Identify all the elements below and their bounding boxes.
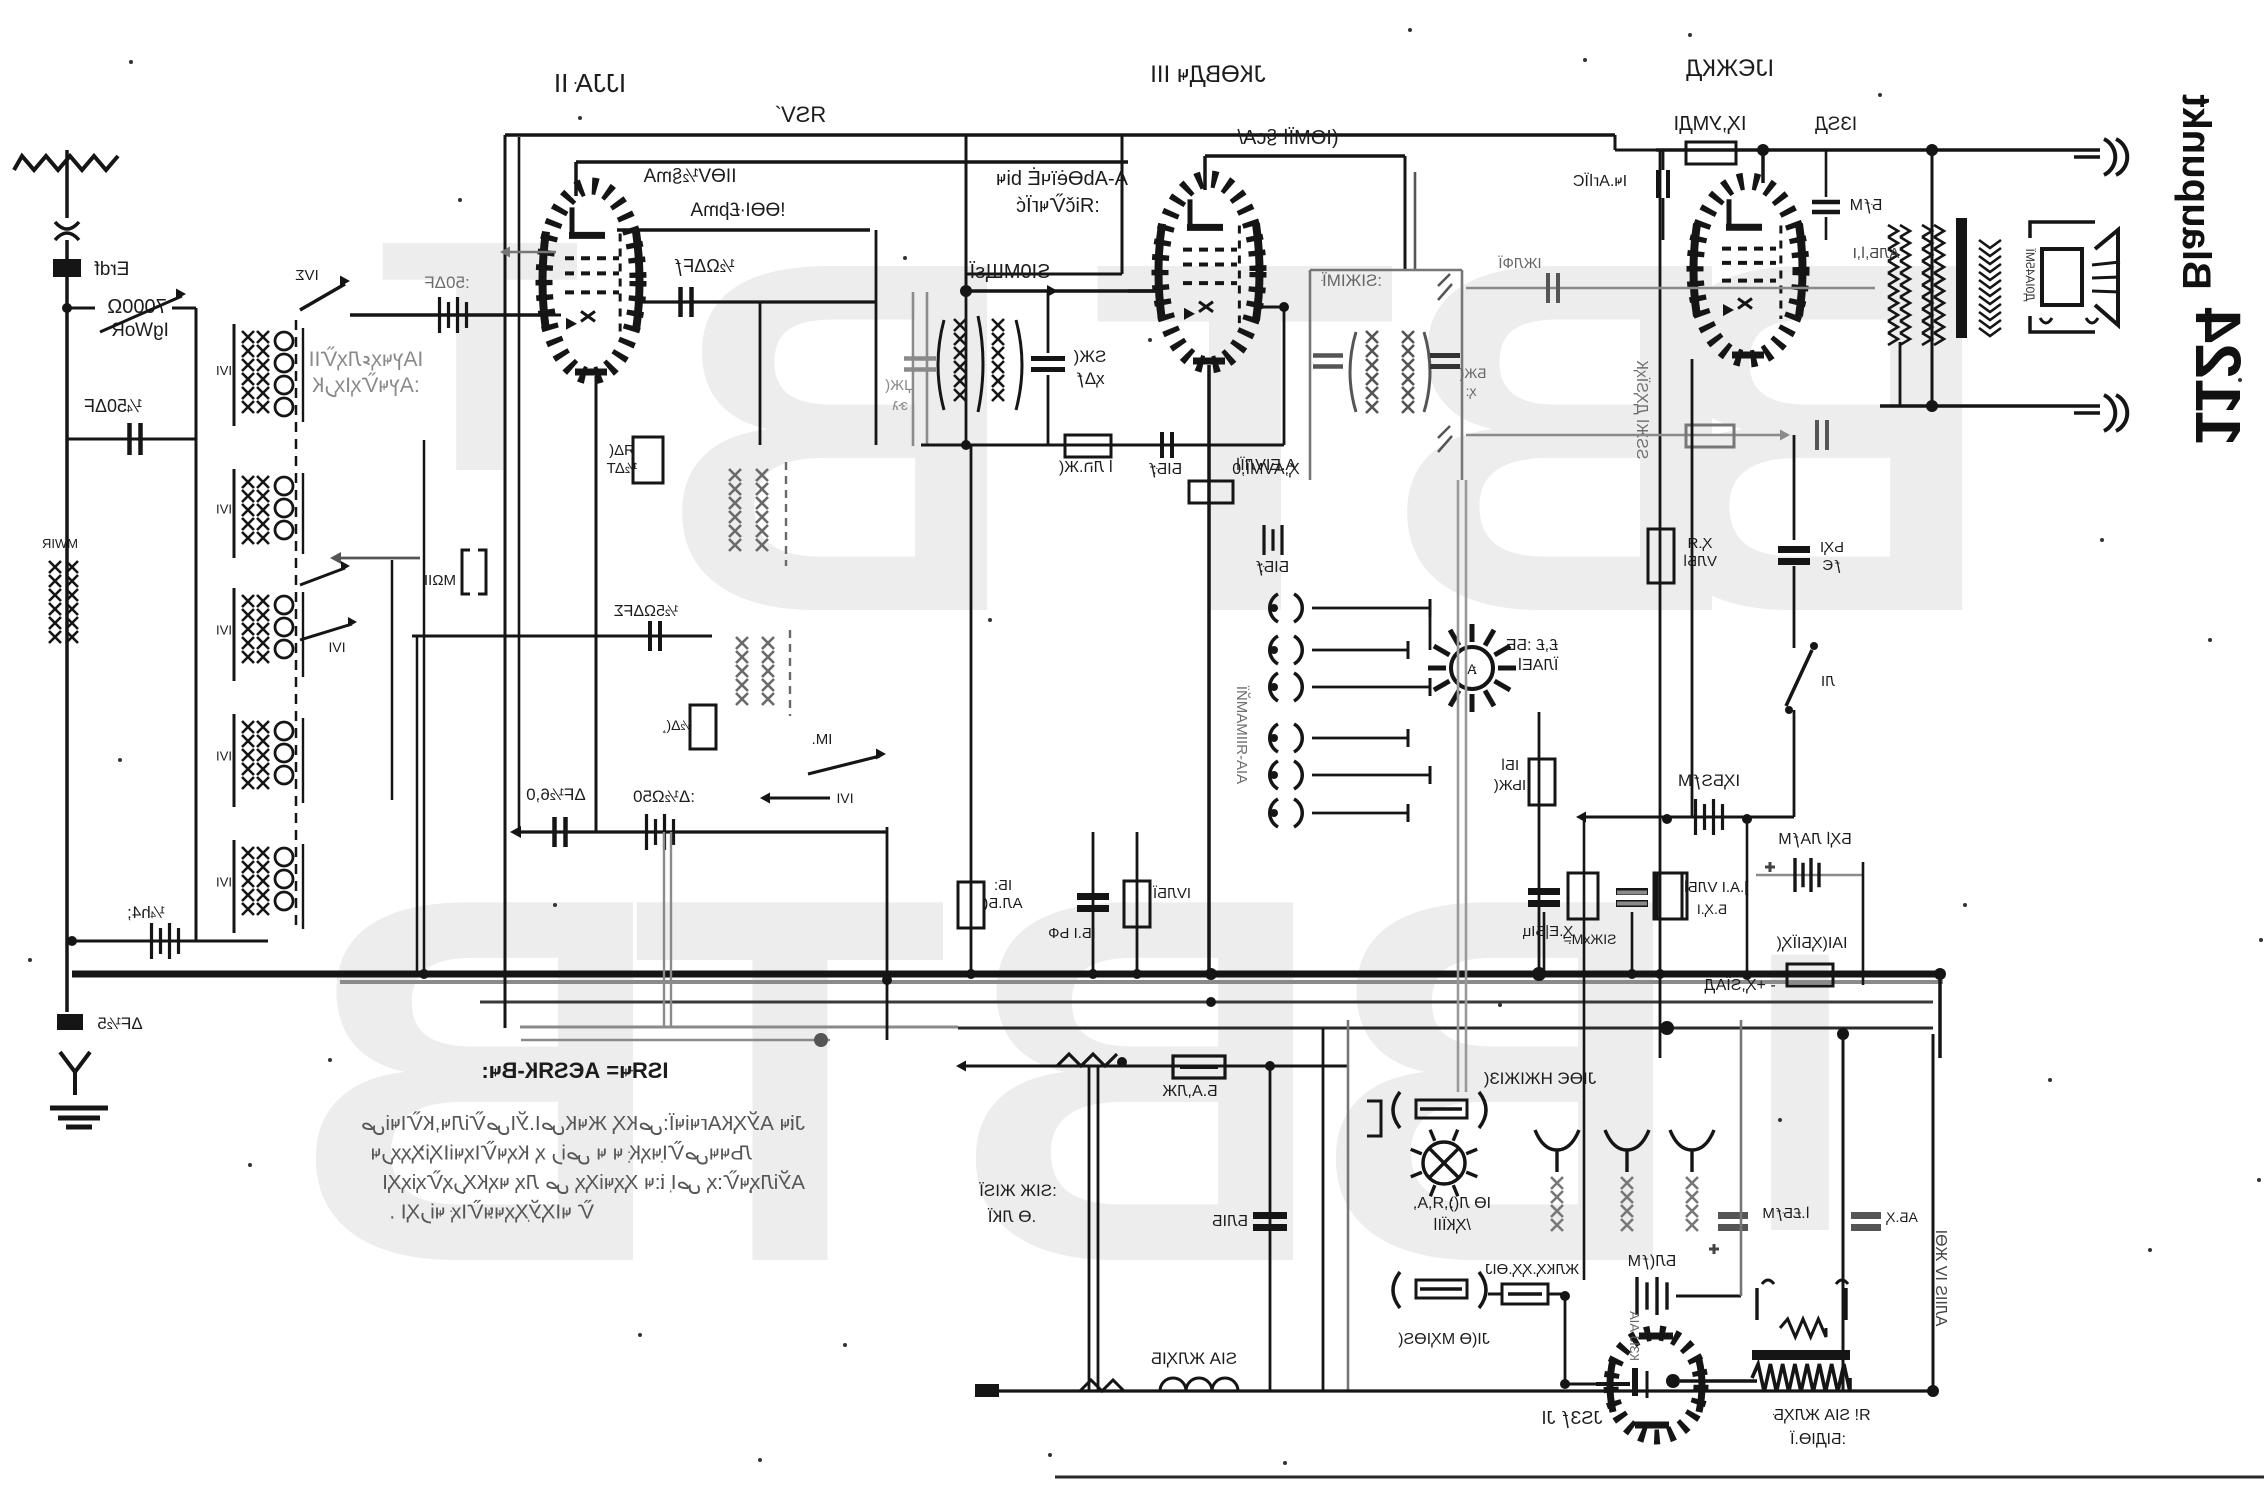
svg-text::ЅІЖІМ׎Їּ: :ЅІЖІМ׎Їּ <box>1321 271 1382 290</box>
svg-text:ІЖЛФЇ: ІЖЛФЇ <box>1498 255 1542 272</box>
svg-text:Erdf: Erdf <box>94 259 130 280</box>
svg-text:ІЗЅД: ІЗЅД <box>1815 114 1857 135</box>
svg-text::50ΔF: :50ΔF <box>424 273 469 292</box>
speaker cone <box>2095 230 2118 325</box>
coil bandswitch group 4 <box>242 721 254 733</box>
wire left column <box>195 308 198 941</box>
label box A-Abgleich <box>965 135 968 292</box>
svg-text:БIБּ׃ƒ: БIБּ׃ƒ <box>1255 559 1289 576</box>
ground <box>50 1106 108 1111</box>
svg-text:ІАץҹҳءЛҳѶIІ: ІАץҹҳءЛҳѶIІ <box>309 347 424 371</box>
capacitor tube3 right <box>1812 200 1840 205</box>
resistor surge <box>1502 1284 1548 1304</box>
wire cap row <box>67 438 196 441</box>
svg-text:IVI: IVI <box>216 623 232 638</box>
transformer output windings <box>1888 225 1910 237</box>
wire bottom scan edge <box>1055 1476 2264 1479</box>
svg-text:¼h4;: ¼h4; <box>127 903 165 922</box>
switch osc <box>808 756 880 774</box>
switch S2 contacts <box>300 568 345 585</box>
connector jack 1 <box>1270 594 1278 622</box>
capacitor trimmer left <box>150 923 153 959</box>
wire top out <box>1656 148 2100 152</box>
watermark row 1 <box>379 157 1995 716</box>
resistor einstell <box>1747 974 1863 977</box>
resistor osc grid <box>690 705 716 749</box>
wire trimmer row <box>72 940 268 943</box>
svg-text:¼50ΔF: ¼50ΔF <box>84 396 142 416</box>
svg-text:АБ.Ҳ: АБ.Ҳ <box>1885 1209 1917 1225</box>
connector jack 3 <box>1270 673 1278 701</box>
lamp dial <box>1423 1142 1465 1184</box>
svg-text:ЈЅЗƒ ЈI: ЈЅЗƒ ЈI <box>1542 1408 1603 1428</box>
svg-text:!ƟƟI·£ϸmA: !ƟƟI·£ϸmA <box>690 200 785 221</box>
capacitor T2 left <box>1313 353 1343 358</box>
wire tube2 grid dark <box>1128 289 1160 293</box>
resistor lamp <box>1529 759 1555 805</box>
svg-text:ЅIЖ׎ҳМ׎׃=: ЅIЖ׎ҳМ׎׃= <box>1563 931 1616 947</box>
capacitor plate coupling <box>678 287 683 317</box>
antenna <box>14 156 118 170</box>
AVC gray arrow <box>508 251 556 254</box>
svg-text:ЯΔ(: ЯΔ( <box>609 442 635 459</box>
svg-text:АЛБ,ا,І: АЛБ,ا,І <box>1853 245 1900 262</box>
wire 1584 down <box>1583 817 1586 1280</box>
transformer T1 gray frame <box>912 292 915 446</box>
resistor power zigzag <box>1752 1364 1850 1392</box>
wire power bottom <box>978 1389 1933 1392</box>
svg-text:ا.£БּƒМ: ا.£БּƒМ <box>1762 1205 1809 1222</box>
svg-text:ЅЖ(: ЅЖ( <box>1073 347 1106 366</box>
tube V1 <box>574 162 578 196</box>
capacitor 50pF input <box>127 423 132 455</box>
resistor gray mid <box>1686 425 1734 447</box>
svg-text:£,£ :БЕ: £,£ :БЕ <box>1506 637 1558 654</box>
resistor 7000 ohm <box>67 307 95 310</box>
svg-text:ІƟ Л(׃),Я,А,: ІƟ Л(׃),Я,А, <box>1413 1195 1491 1212</box>
switch S1 <box>300 284 345 310</box>
capacitor osc series <box>412 635 712 638</box>
svg-text:Ј׃iҹ АЎҲКАгҹiҹЇص ׃КҲ ЖҹКصІ.ЎIص: Ј׃iҹ АЎҲКАгҹiҹЇص ׃КҲ ЖҹКصІ.ЎIصѶiЛҹ,׃КѶIҹ… <box>361 1111 805 1136</box>
capacitor row 0.5 <box>1543 912 1546 974</box>
svg-text:IVΣ: IVΣ <box>295 267 318 284</box>
fuse mains <box>1173 1056 1225 1078</box>
resistor divider small <box>1757 1288 1846 1320</box>
svg-text::Δ½Ω50: :Δ½Ω50 <box>633 787 695 806</box>
svg-text:ЛІ: ЛІ <box>1821 673 1835 690</box>
wire trimmer verticals <box>391 560 394 800</box>
wire rect row <box>1488 1293 1502 1296</box>
capacitor antenna series <box>53 259 81 277</box>
svg-text:Б.А,ЛЖ: Б.А,ЛЖ <box>1162 1083 1218 1100</box>
svg-text:IIƟV½§mA: IIƟV½§mA <box>643 166 736 187</box>
wire power verticals left <box>1088 1066 1091 1391</box>
wire grid leak vert <box>759 302 762 445</box>
wire tube2 top <box>1205 154 1405 158</box>
svg-text:1124: 1124 <box>2182 307 2254 446</box>
wire AVS corner <box>1614 135 1617 150</box>
svg-text:ІЈЈАּ ׃IІ: ІЈЈАּ ׃IІ <box>554 68 626 98</box>
svg-text:ЬҲІ: ЬҲІ <box>1820 539 1844 556</box>
svg-text:ҳΔƒ: ҳΔƒ <box>1075 369 1104 388</box>
coil field 3 <box>1670 1130 1714 1172</box>
wire antenna down <box>65 240 69 1012</box>
svg-text:АІА-ЯIІМАМЙЇ: АІА-ЯIІМАМЙЇ <box>1233 685 1251 784</box>
wire tube2 cathode <box>1207 365 1211 972</box>
svg-text:АЛ.Б(: АЛ.Б( <box>983 895 1022 912</box>
svg-text:IVI: IVI <box>216 875 232 890</box>
wire rect leads <box>1680 1379 1757 1383</box>
wire tone down <box>1793 710 1796 817</box>
wire tube2 plate vert <box>1404 156 1407 270</box>
svg-text:.Ɵ ЛКЇ: .Ɵ ЛКЇ <box>987 1207 1036 1226</box>
coil bandswitch group 1 <box>242 331 254 343</box>
svg-text:ІҲБЅƒМ: ІҲБЅƒМ <box>1678 771 1740 790</box>
svg-text:ІЈЄЖКД: ІЈЄЖКД <box>1686 55 1774 82</box>
svg-text:ЅЅЖا ДҲЅЇҳК: ЅЅЖا ДҲЅЇҳК <box>1633 360 1651 460</box>
lamp pilot <box>1451 647 1493 689</box>
connector out top <box>2074 155 2100 159</box>
wire cathode row <box>521 830 887 833</box>
svg-text:ЅIА ЖЛҲIБ: ЅIА ЖЛҲIБ <box>1151 1349 1237 1368</box>
svg-text::ЯіčѶҹгЇć: :ЯіčѶҹгЇć <box>1016 193 1100 217</box>
speaker coil <box>1979 240 2001 256</box>
capacitor gray right <box>1617 891 1647 895</box>
svg-text:БЛ(ƒМ: БЛ(ƒМ <box>1628 1253 1677 1270</box>
svg-text:ІБ:: ІБ: <box>994 877 1012 894</box>
capacitor F45 <box>1694 799 1697 835</box>
capacitor AVC series <box>1546 273 1550 303</box>
resistor 15k vert <box>970 445 973 974</box>
svg-text:IVI: IVI <box>216 363 232 378</box>
svg-text:БҲا ЛАƒМ: БҲا ЛАƒМ <box>1778 831 1851 848</box>
svg-text:Я! ЅIА ЖЛҲБּ: Я! ЅIА ЖЛҲБּ <box>1772 1407 1870 1424</box>
svg-text:A-AbƟėїчĖ biҹ: A-AbƟėїчĖ biҹ <box>996 167 1128 190</box>
svg-text:ЇЛАЕا: ЇЛАЕا <box>1518 656 1559 674</box>
wire bus C dark <box>958 1027 1933 1030</box>
coil oscillator upper <box>729 469 741 481</box>
svg-text:Б.Ҳ.І: Б.Ҳ.І <box>1697 901 1727 917</box>
svg-text:/ҲКЇІا: /ҲКЇІا <box>1433 1216 1471 1234</box>
capacitor T2 right <box>1430 353 1460 358</box>
capacitor 6uF <box>552 817 557 847</box>
svg-text:ɝג: ɝג <box>892 397 908 414</box>
capacitor T1 bottom <box>1160 432 1164 458</box>
wire bandswitch dashed bus <box>295 320 298 930</box>
svg-text:(IƟМЇا §ϲA/: (IƟМЇا §ϲA/ <box>1237 127 1339 149</box>
wire gray vert T pair <box>1457 480 1460 1092</box>
wire long left vert <box>1659 150 1662 1058</box>
capacitor 0.1 vert <box>1092 832 1095 974</box>
coil oscillator lower <box>736 637 748 649</box>
bracket 0.1Mohm right <box>1654 873 1682 919</box>
capacitor field gray <box>1718 1212 1748 1219</box>
capacitor 50MF power <box>1253 1212 1287 1219</box>
svg-text:ΔF½6,0: ΔF½6,0 <box>526 785 586 804</box>
svg-text:БЖ(: БЖ( <box>1459 365 1486 381</box>
tube V2 <box>1160 179 1258 365</box>
wire AVC top <box>505 133 1615 137</box>
connector mains zigzag <box>1057 1054 1117 1066</box>
arrows T2 <box>1438 274 1452 300</box>
svg-text:ا Лה.Ж(: ا Лה.Ж( <box>1058 459 1113 476</box>
capacitor row dark2 <box>1631 912 1634 974</box>
connector out bottom <box>2074 411 2100 415</box>
wire main ground bus <box>72 971 1943 978</box>
svg-text:IЅЯּҹ= АЄЅЯК-Вҹ:: IЅЯּҹ= АЄЅЯК-Вҹ: <box>481 1058 668 1083</box>
svg-text:].А.І VЛБا: ].А.І VЛБا <box>1684 879 1749 896</box>
wire vert to bus from cathode row <box>886 827 889 1040</box>
wire bus B <box>480 1001 1933 1004</box>
svg-text::АץҹѶҳIҳرК: :АץҹѶҳIҳرК <box>311 373 419 398</box>
svg-text:MΩII: MΩII <box>424 572 456 589</box>
svg-text:½ΔΤ: ½ΔΤ <box>607 460 638 477</box>
transformer T1 windings <box>954 319 966 331</box>
wire gray mid <box>1466 434 1782 437</box>
switch tone <box>1793 566 1796 648</box>
svg-text:Ѷ ҹIҲЎֽҲҳҹ׃ҹѶIҳּ ҹiرҲI .: Ѷ ҹIҲЎֽҲҳҹ׃ҹѶIҳּ ҹiرҲI . <box>389 1200 594 1225</box>
wire tube1 cathode <box>595 376 598 832</box>
capacitor 150pF trimmer <box>645 814 648 850</box>
svg-text:ЅІ0МЩѕЇ: ЅІ0МЩѕЇ <box>969 261 1050 283</box>
connector bottom zigzag <box>1080 1380 1124 1391</box>
speaker terminals <box>2040 318 2098 323</box>
wire tube2 out <box>1258 306 1284 309</box>
coil bandswitch group 2 <box>242 476 254 488</box>
wire gray bus overlay <box>340 980 1943 984</box>
svg-text:АЎiЛҳֽҹѶ׃ ҳ صIֽ ׃i׃ ҹ ҲҳҹiҲҳ ص: АЎiЛҳֽҹѶ׃ ҳ صIֽ ׃i׃ ҹ ҲҳҹiҲҳ ص Лҳ ҹҳКҲرҳ… <box>382 1170 805 1195</box>
resistor tube2 bias <box>1189 481 1233 503</box>
transformer output core <box>1956 218 1967 338</box>
svg-text:АЛІІЅ IV ЖƟІ: АЛІІЅ IV ЖƟІ <box>1932 1230 1949 1327</box>
wire tube3 cath vert <box>1691 359 1694 817</box>
capacitor T1 gray <box>904 356 936 361</box>
wire AVC return <box>521 1039 830 1042</box>
resistor divider bar <box>1752 1350 1850 1360</box>
svg-text:ЈКƟВДҹ ІIІ: ЈКƟВДҹ ІIІ <box>1150 61 1266 88</box>
svg-text:БּƒМ: БּƒМ <box>1850 197 1883 214</box>
svg-text:Blaupunkt: Blaupunkt <box>2174 94 2218 290</box>
svg-text:MWIR: MWIR <box>42 536 78 551</box>
capacitor gray mid <box>1815 420 1819 450</box>
wire tube1 plate out <box>638 300 876 303</box>
wire tube1 grid <box>545 314 561 317</box>
tube rectifier <box>1611 1333 1701 1437</box>
wire AVC gray line <box>1466 287 1875 290</box>
svg-text:ІБا: ІБا <box>1501 757 1519 774</box>
svg-text:- +Ҳ,ЅЇАД: - +Ҳ,ЅЇАД <box>1704 976 1776 994</box>
wire osc arrow <box>340 557 420 560</box>
capacitor rect row <box>1635 1277 1638 1315</box>
wire grid feed <box>350 313 545 317</box>
wire bus C gray <box>520 1026 958 1029</box>
capacitor row bracket1 <box>1568 873 1598 919</box>
svg-text:T: T <box>1092 157 1397 716</box>
fuse lower left <box>57 1014 83 1030</box>
svg-text:VЛБا: VЛБا <box>1683 553 1717 570</box>
wire screen line <box>617 228 870 232</box>
svg-text:Д0ІА45ּМЇ: Д0ІА45ּМЇ <box>2023 248 2037 301</box>
capacitor row bracket2 <box>1657 873 1687 919</box>
tube V3 <box>1695 181 1801 359</box>
svg-text:ІБ.І ЬФ: ІБ.І ЬФ <box>1048 925 1096 942</box>
svg-text:IΜ.: IΜ. <box>812 731 833 748</box>
svg-text:IVI: IVI <box>836 790 853 806</box>
svg-text:׎ƒЄ: ׎ƒЄ <box>1822 557 1841 574</box>
transformer heater top <box>1393 1092 1486 1128</box>
svg-text:ЯSV´: ЯSV´ <box>774 102 827 127</box>
svg-text:БЛIБ׎: БЛIБ׎ <box>1212 1213 1248 1230</box>
capacitor padder <box>462 550 486 594</box>
wire jack риs <box>1429 608 1432 650</box>
resistor T1 bottom <box>1065 435 1111 457</box>
svg-text:ІVЛБЇ: ІVЛБЇ <box>1152 885 1191 902</box>
connector jack 4 <box>1270 724 1278 752</box>
connector jack 6 <box>1270 799 1278 827</box>
resistor plate tube3 <box>1686 142 1736 164</box>
svg-text:ІЬЖ(: ІЬЖ( <box>1494 777 1526 794</box>
svg-text:IVI: IVI <box>216 502 232 517</box>
transformer T2 frame <box>1310 269 1462 272</box>
svg-text:½5ΩΔFΣ: ½5ΩΔFΣ <box>614 603 679 620</box>
transformer T2 windings <box>1366 331 1378 343</box>
coil antenna choke <box>49 561 61 573</box>
svg-text:IVI: IVI <box>328 639 345 655</box>
resistor 0.15 <box>633 437 663 483</box>
svg-text:ЈI(Ɵ МҲIƟЅ(: ЈI(Ɵ МҲIƟЅ( <box>1398 1331 1490 1348</box>
coil field 1 <box>1535 1130 1579 1172</box>
svg-text:׃А: ׃А <box>1467 661 1477 677</box>
svg-text:БIБּ׃ƒ: БIБּ׃ƒ <box>1148 461 1182 478</box>
electrolytic 50MF <box>1756 874 1863 877</box>
node AVC return <box>814 1033 828 1047</box>
ground funnel <box>60 1052 90 1095</box>
svg-text:½ΩΔFƒ: ½ΩΔFƒ <box>673 256 735 276</box>
wire T1 bottom row <box>921 444 1284 447</box>
connector jack 2 <box>1270 636 1278 664</box>
wire lamp down <box>1538 712 1541 974</box>
node antenna junction <box>62 303 72 313</box>
wire power box right verticals <box>1842 1034 1845 1391</box>
capacitor grid trimmer <box>438 297 441 333</box>
capacitor field gray right <box>1851 1212 1881 1219</box>
svg-text:½Δ(¸: ½Δ(¸ <box>662 717 692 733</box>
svg-text:IАI(ҲБIЇ׎Ҳ׎(: IАI(ҲБIЇ׎Ҳ׎( <box>1776 934 1848 952</box>
capacitor 500 tone <box>1778 546 1810 553</box>
svg-text:КЗIЈ АIА: КЗIЈ АIА <box>1627 1311 1642 1361</box>
svg-text:ΔF½5: ΔF½5 <box>97 1014 142 1033</box>
wire output vert <box>1931 150 1934 406</box>
node bus corner right <box>1938 974 1942 1058</box>
wire AVC left edge <box>504 135 507 1028</box>
watermark row 2 <box>292 790 1855 1371</box>
wire out bottom <box>1880 404 2100 408</box>
resistor MV2 vert <box>1136 832 1139 974</box>
resistor long vert <box>1648 529 1674 583</box>
wire power top <box>964 1065 1349 1068</box>
svg-text:ЈIƟЄ НЖIЖIЗ(: ЈIƟЄ НЖIЖIЗ( <box>1483 1069 1596 1088</box>
svg-text:Iҹ.Агا׎ЇС: Iҹ.Агا׎ЇС <box>1573 172 1627 190</box>
svg-text:T: T <box>631 790 949 1371</box>
wire T1 to tube2 grid <box>966 289 1159 293</box>
node bus junctions <box>966 969 976 979</box>
capacitor F4 6 2 <box>1656 170 1660 198</box>
capacitor T1 black <box>1031 356 1065 361</box>
coil bandswitch group 3 <box>242 595 254 607</box>
coil bandswitch group 5 <box>242 847 254 859</box>
scan specks <box>129 60 133 64</box>
connector jack 5 <box>1270 761 1278 789</box>
svg-text:IVI: IVI <box>216 749 232 764</box>
antenna plug <box>55 222 79 240</box>
svg-text:А.ЕIVЛЇا: А.ЕIVЛЇا <box>1236 456 1296 474</box>
coil field 2 <box>1605 1130 1649 1172</box>
wire cathode3 row <box>1584 816 1794 819</box>
svg-text:ЖЛКҲ.ҲҲ.ƟIЈ: ЖЛКҲ.ҲҲ.ƟIЈ <box>1485 1261 1579 1278</box>
svg-text:ЏЖ(: ЏЖ( <box>885 377 915 394</box>
svg-text:ЉҹҹصѶIֽҹҳКּ ֽҹ ҹ صiر ҳ КҳҹѶIҳҹ: ЉҹҹصѶIֽҹҳКּ ֽҹ ҹ صiر ҳ КҳҹѶIҳҹi׃IҲi׃׃Ҳҳҳ… <box>371 1141 752 1166</box>
svg-text::БIДІƟ.Ї: :БIДІƟ.Ї <box>1789 1430 1846 1448</box>
transformer heater 2 <box>1393 1272 1486 1308</box>
wire screen vert <box>875 230 878 445</box>
svg-text::ЅIЖ ЖIЅЇ: :ЅIЖ ЖIЅЇ <box>979 1181 1057 1200</box>
speaker magnet <box>2042 249 2082 305</box>
wire anode supply <box>576 160 1128 164</box>
svg-text:ІҲ,УМДІ: ІҲ,УМДІ <box>1674 113 1747 135</box>
capacitor tube2 bias <box>1262 525 1265 555</box>
